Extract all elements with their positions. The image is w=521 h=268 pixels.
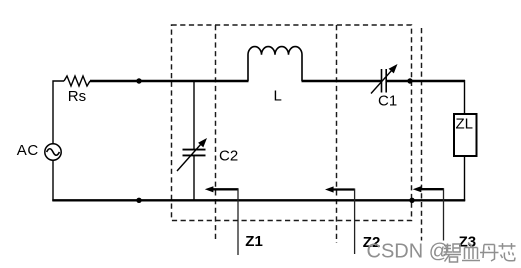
wire: top rail (resistor to inductor)	[90, 80, 249, 82]
watermark hanzi 碧	[444, 244, 462, 263]
svg-text:CSDN @: CSDN @	[367, 241, 450, 263]
capacitor C1 (variable, series)	[371, 64, 398, 94]
svg-text:Z1: Z1	[245, 233, 263, 250]
junction node (top left)	[136, 78, 141, 83]
impedance arrow Z1	[205, 186, 238, 255]
impedance arrow Z3	[413, 186, 444, 240]
capacitor C2 (variable, shunt)	[177, 138, 207, 171]
wire: right rail down to load	[464, 80, 466, 114]
watermark hanzi 芯	[499, 243, 516, 261]
svg-text:AC: AC	[17, 142, 39, 159]
junction node (bottom right)	[409, 198, 414, 203]
dashed divider line (inner right)	[336, 25, 338, 243]
inductor L	[248, 47, 302, 81]
dashed matching-network box	[172, 25, 412, 221]
dashed divider line (inner left)	[215, 25, 217, 242]
wire: left rail bottom	[52, 160, 54, 201]
load ZL	[454, 114, 477, 156]
wire: C2 branch upper	[193, 81, 195, 149]
junction node (top right)	[407, 78, 412, 83]
wire: left rail top (corner to resistor)	[53, 81, 64, 144]
watermark hanzi 丹	[480, 245, 499, 262]
wire: top rail (C1 to right corner)	[387, 80, 466, 82]
svg-text:Rs: Rs	[68, 88, 86, 105]
junction node (bottom left)	[136, 198, 141, 203]
wire: load to bottom rail	[464, 156, 466, 201]
svg-text:ZL: ZL	[456, 116, 474, 133]
svg-text:C2: C2	[219, 148, 238, 165]
watermark hanzi 血	[462, 243, 480, 261]
AC source	[45, 144, 61, 160]
wire: C2 branch lower	[193, 156, 195, 202]
wire: bottom rail	[52, 199, 465, 201]
svg-text:C1: C1	[378, 92, 397, 109]
dashed line at load plane	[421, 28, 423, 241]
svg-text:L: L	[274, 88, 282, 105]
wire: top rail (inductor to C1)	[302, 80, 382, 82]
resistor Rs	[64, 76, 90, 86]
impedance arrow Z2	[325, 186, 355, 254]
